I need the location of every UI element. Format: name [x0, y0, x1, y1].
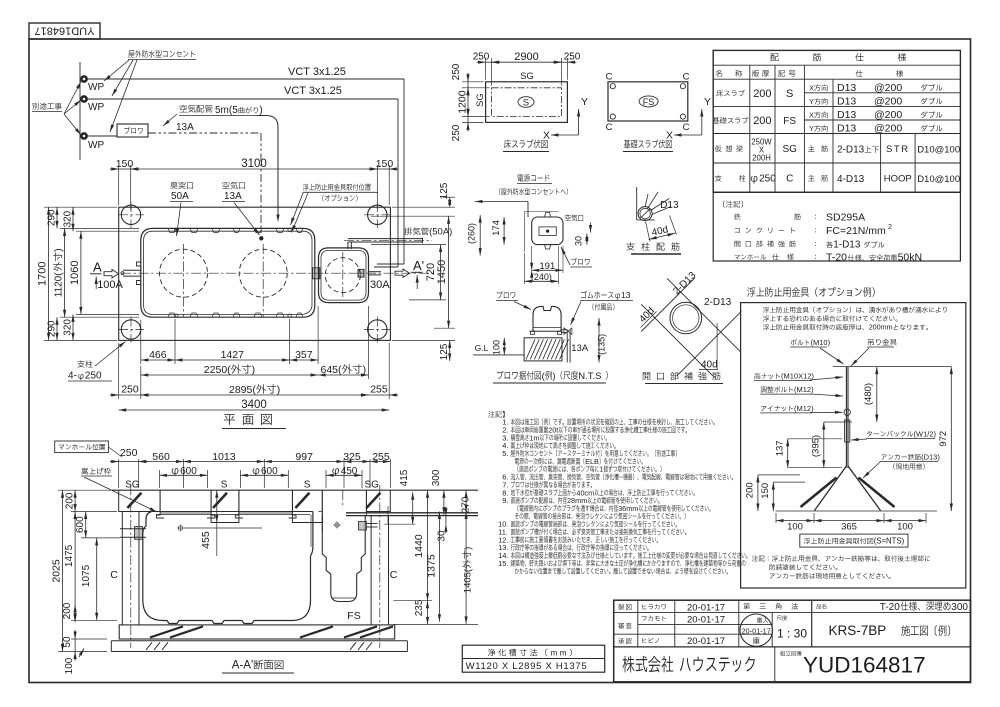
- uplift bracket figure label box: [800, 534, 908, 547]
- dim bottom 255: [388, 343, 390, 399]
- bracket: V anchor legs: [815, 466, 847, 511]
- svg-text:Y: Y: [809, 124, 814, 133]
- dim (240) below blower: [524, 280, 558, 282]
- row: virtual beam SG: [715, 145, 722, 152]
- svg-text:1075: 1075: [81, 564, 92, 587]
- svg-text:1450: 1450: [436, 260, 448, 284]
- label: hanging bracket: [868, 339, 874, 346]
- section: tank interior partition lines: [216, 515, 218, 523]
- svg-text:50: 50: [62, 636, 73, 648]
- dim 30 blower: [586, 234, 588, 245]
- svg-text:(M10X12): (M10X12): [781, 372, 814, 381]
- svg-text:600: 600: [261, 466, 278, 477]
- svg-text:D13: D13: [837, 123, 856, 135]
- section dim right 1440: [427, 490, 429, 601]
- svg-text:2250(: 2250(: [204, 364, 231, 376]
- svg-text:): ): [552, 371, 555, 382]
- svg-text:250: 250: [473, 52, 490, 63]
- title block grid lines: [614, 646, 971, 648]
- svg-text:A': A': [413, 258, 424, 273]
- svg-text:T-20: T-20: [880, 602, 900, 613]
- section dim 455: [216, 490, 218, 522]
- svg-text:C: C: [110, 569, 118, 581]
- column rebar detail corner lines: [636, 187, 638, 220]
- section dims D600 D600 D450: [159, 470, 161, 488]
- dim bottom 466: [140, 320, 142, 364]
- plan: outlet pipe 30A: [369, 271, 382, 273]
- section: base slab FS band: [119, 625, 395, 639]
- power cord line with arrow to left: [475, 201, 528, 203]
- svg-text:365: 365: [841, 522, 857, 533]
- svg-text:13A: 13A: [224, 191, 242, 202]
- plan: support column circle top-left: [121, 205, 140, 224]
- svg-text:(W1/2): (W1/2): [914, 429, 937, 438]
- svg-text:WP: WP: [88, 140, 104, 151]
- dim (260) left of blower: [479, 215, 481, 256]
- svg-text:C: C: [786, 174, 793, 185]
- section: inlet pipe left: [120, 528, 146, 530]
- svg-text:100: 100: [897, 522, 913, 533]
- svg-text:3400: 3400: [241, 399, 267, 411]
- svg-text:250: 250: [121, 384, 139, 396]
- uplift bracket notes: [752, 555, 758, 561]
- floor slab mark S: [518, 97, 534, 108]
- svg-text:200: 200: [753, 88, 771, 100]
- svg-text:2895(: 2895(: [229, 384, 256, 396]
- column rebar detail title: [626, 242, 634, 250]
- svg-text:13: 13: [621, 290, 631, 300]
- base slab plan rectangle: [608, 82, 688, 121]
- company name: [622, 656, 634, 673]
- svg-text:C: C: [390, 569, 398, 581]
- section: gravel base layer: [111, 640, 407, 642]
- svg-text:1m: 1m: [529, 433, 539, 442]
- svg-text:174: 174: [491, 220, 502, 236]
- svg-text:200: 200: [753, 115, 771, 127]
- svg-text:320: 320: [63, 319, 74, 336]
- label: bolt M10: [791, 339, 797, 345]
- svg-text:2025: 2025: [51, 559, 63, 583]
- svg-text:SG: SG: [475, 93, 486, 107]
- svg-text:150: 150: [376, 158, 394, 170]
- svg-text:9.: 9.: [502, 496, 508, 505]
- svg-text:X: X: [809, 84, 814, 93]
- svg-text:20t: 20t: [548, 426, 558, 435]
- svg-text:C: C: [606, 122, 613, 133]
- title row: checker: [618, 623, 624, 629]
- flow arrow at inlet (hollow): [104, 270, 119, 278]
- section: outlet invert extension: [384, 523, 415, 525]
- section dim right 235: [427, 601, 429, 625]
- dim (135) hose: [598, 318, 600, 363]
- svg-text:D10@100: D10@100: [917, 144, 960, 155]
- note: manhole spec: [735, 255, 740, 259]
- svg-text:250: 250: [451, 63, 462, 80]
- row: column C: [715, 175, 721, 181]
- wall line for outlets: [79, 62, 81, 160]
- section dim left 1075: [96, 538, 98, 620]
- svg-text:100A: 100A: [97, 279, 123, 291]
- plan: manhole circle 2 (dashed): [239, 249, 287, 297]
- svg-text:20-01-17: 20-01-17: [687, 614, 725, 625]
- svg-text:(M10): (M10): [811, 338, 831, 347]
- svg-text:972: 972: [938, 431, 949, 447]
- svg-text:W1120 X L2895 X H1375: W1120 X L2895 X H1375: [466, 661, 588, 672]
- dim (395): [823, 422, 825, 468]
- svg-text:SG: SG: [125, 480, 140, 491]
- dim bottom 1427: [289, 319, 291, 364]
- note: rebar grade: [734, 213, 740, 219]
- section dim left 200 top: [71, 511, 117, 513]
- opening reinforcement circles: [670, 302, 702, 334]
- uplift bracket section title: [747, 287, 755, 297]
- svg-text:SG: SG: [365, 480, 380, 491]
- svg-text:250: 250: [120, 447, 138, 459]
- svg-text:357: 357: [295, 349, 313, 361]
- svg-text:235: 235: [414, 599, 425, 616]
- table header: [770, 53, 778, 61]
- svg-text:150: 150: [116, 158, 134, 170]
- svg-text:300: 300: [951, 602, 968, 613]
- svg-text:250: 250: [451, 124, 462, 141]
- dim bottom 2250 outer: [141, 374, 318, 376]
- svg-text:D13: D13: [837, 109, 856, 121]
- svg-text:KRS-7BP: KRS-7BP: [829, 623, 887, 638]
- dim bottom 357: [317, 306, 319, 364]
- dim 174 left of blower: [503, 217, 505, 245]
- dim (480): [876, 367, 878, 422]
- plan: pump manhole circle (dashed): [325, 258, 360, 293]
- blower top view tabs: [545, 213, 551, 218]
- label: air port on blower: [565, 214, 571, 221]
- svg-text:455: 455: [200, 531, 212, 549]
- base slab corner circles C: [610, 84, 615, 89]
- WP outlet 3: [81, 133, 88, 140]
- svg-text:@200: @200: [874, 109, 902, 121]
- plan: inlet pipe 100A: [121, 272, 124, 275]
- section dim left 1475: [74, 512, 76, 621]
- label: power cord: [517, 175, 523, 182]
- svg-text:1427: 1427: [221, 349, 245, 361]
- svg-text:100: 100: [787, 522, 803, 533]
- svg-text:Y: Y: [704, 96, 711, 108]
- svg-text:1120(: 1120(: [54, 272, 65, 298]
- plan: support column circle bottom-left: [121, 320, 140, 339]
- dim 150 anchor: [772, 482, 774, 511]
- label: stink vent 50A: [170, 182, 177, 189]
- dim bottom 3400: [119, 409, 390, 411]
- svg-text:VCT 3x1.25: VCT 3x1.25: [284, 85, 342, 97]
- received stamp circle: [740, 614, 772, 646]
- section dim left 200 bottom: [71, 619, 117, 621]
- svg-text:@200: @200: [874, 96, 902, 108]
- dim 40d column (slanted): [646, 222, 651, 242]
- svg-text:125: 125: [439, 343, 450, 360]
- svg-text:250: 250: [85, 371, 102, 382]
- bracket: eye nut circle: [844, 409, 850, 415]
- dim bottom 645 outer: [368, 306, 370, 379]
- section: ground line: [112, 489, 478, 491]
- section dim left 100: [64, 657, 75, 674]
- section dim right 300: [443, 490, 445, 515]
- svg-text:125: 125: [439, 182, 450, 199]
- plan: tank body inner shell: [144, 231, 312, 314]
- svg-text:1405(: 1405(: [463, 568, 474, 593]
- svg-text:250: 250: [759, 174, 776, 185]
- svg-text:): ): [463, 547, 474, 550]
- svg-text:28mm: 28mm: [567, 496, 587, 505]
- svg-text:36mm: 36mm: [618, 504, 638, 513]
- svg-text:X: X: [809, 111, 814, 120]
- dim 972: [950, 367, 952, 511]
- svg-text:137: 137: [774, 440, 785, 456]
- section dim left 50: [71, 638, 107, 640]
- svg-text:15.: 15.: [498, 559, 508, 568]
- svg-text:mm: mm: [551, 649, 569, 658]
- blower detail boundary lines: [523, 212, 525, 252]
- svg-text:200: 200: [65, 492, 76, 509]
- svg-text:X: X: [543, 130, 550, 142]
- section: manhole riser 2: [235, 490, 243, 518]
- svg-text:1013: 1013: [212, 451, 236, 463]
- svg-text:1440: 1440: [413, 534, 425, 558]
- svg-text:1375: 1375: [425, 554, 437, 578]
- bracket: turnbuckle body: [845, 420, 850, 442]
- svg-text:G.L: G.L: [475, 343, 489, 353]
- svg-text:WP: WP: [88, 82, 104, 93]
- svg-text:STR: STR: [886, 144, 910, 155]
- label 2-D13 slanted: [671, 270, 698, 297]
- svg-text:VCT 3x1.25: VCT 3x1.25: [288, 66, 346, 78]
- svg-text:(M12): (M12): [794, 385, 814, 394]
- section: tank body outline: [143, 512, 313, 624]
- svg-text:Y: Y: [581, 96, 588, 108]
- svg-text:FC=21N/mm: FC=21N/mm: [826, 225, 886, 237]
- section dim right 1405 outer: [465, 512, 467, 624]
- svg-text:T-20: T-20: [826, 252, 847, 264]
- tank dimensions table: [462, 645, 604, 672]
- dim top 150: [118, 165, 120, 205]
- svg-text:1475: 1475: [64, 544, 75, 567]
- svg-text:200: 200: [745, 482, 756, 498]
- section dim left 600: [81, 537, 120, 539]
- dim right 125 bottom: [392, 339, 455, 341]
- svg-text:~: ~: [619, 473, 623, 482]
- svg-text:(395): (395): [810, 435, 821, 457]
- svg-text:645(: 645(: [321, 364, 343, 376]
- svg-text:191: 191: [539, 261, 555, 272]
- svg-text:300: 300: [431, 469, 442, 486]
- floor slab dims 250/2900/250 top: [485, 58, 487, 80]
- section dim right 30: [445, 516, 447, 525]
- svg-text:30: 30: [574, 236, 584, 246]
- svg-text:N.T.S: N.T.S: [578, 371, 601, 382]
- row: base slab FS: [713, 117, 720, 123]
- dim 200 anchor: [757, 475, 759, 511]
- svg-text:13A: 13A: [176, 122, 194, 133]
- section: gravel hatch marks: [146, 642, 152, 650]
- blower side view body: [533, 306, 561, 331]
- bracket: tank top line: [833, 366, 951, 368]
- label: air piping 5m: [179, 105, 187, 112]
- svg-text:D13: D13: [837, 96, 856, 108]
- svg-text:4-: 4-: [68, 371, 77, 382]
- base slab XY axis: [701, 109, 703, 135]
- plan: outlet fitting: [358, 269, 364, 277]
- svg-text:255: 255: [372, 451, 390, 463]
- opening reinforcement bars X pattern: [641, 304, 713, 376]
- svg-text:(480): (480): [863, 383, 874, 405]
- dim 191 below blower: [531, 269, 533, 271]
- svg-text:(135): (135): [597, 334, 607, 355]
- svg-text:SG: SG: [520, 71, 534, 82]
- label: blower (side view): [497, 291, 503, 298]
- WP outlet 2: [81, 96, 88, 103]
- svg-text:2-D13: 2-D13: [704, 297, 732, 308]
- svg-text:(260): (260): [467, 223, 477, 244]
- label 40d slanted: [637, 306, 657, 326]
- section arrow A-prime (right): [395, 269, 410, 277]
- label: manhole position box: [55, 441, 109, 453]
- note: opening reinforcement: [734, 241, 740, 247]
- dim left 320 top: [72, 207, 74, 231]
- air pipe curve down to tank: [258, 116, 278, 220]
- section: outlet pipe right: [359, 522, 367, 531]
- svg-text:466: 466: [149, 349, 167, 361]
- label: air inlet 13A: [222, 182, 229, 189]
- plan: vent pipe 50A to right: [404, 228, 412, 236]
- svg-text:): ): [54, 248, 65, 251]
- svg-text:ELB: ELB: [585, 457, 599, 466]
- plan: floor slab outline: [119, 207, 391, 340]
- section: pump centerline: [342, 490, 344, 506]
- svg-text:997: 997: [295, 451, 313, 463]
- svg-text:290: 290: [47, 320, 58, 337]
- svg-text:40d: 40d: [701, 360, 718, 371]
- svg-text:FS: FS: [643, 97, 655, 107]
- svg-text:A-A': A-A': [232, 660, 253, 672]
- svg-text:YUD164817: YUD164817: [803, 653, 926, 678]
- floor slab label SG left (rotated): [475, 93, 486, 107]
- label: rubber hose phi13: [581, 291, 587, 299]
- construction notes list: [488, 411, 494, 417]
- floor slab XY axis: [578, 109, 580, 135]
- svg-text:20-01-17: 20-01-17: [742, 627, 771, 636]
- svg-text:): ): [363, 364, 367, 376]
- label: blower (top view): [571, 258, 577, 265]
- title row: drafter: [618, 604, 624, 610]
- svg-text:150: 150: [760, 483, 771, 499]
- section dim right 1375: [438, 512, 440, 622]
- svg-text:C: C: [683, 122, 690, 133]
- svg-text:290: 290: [47, 209, 58, 226]
- bracket: anchor bars (thick): [801, 478, 837, 508]
- WP outlet 1: [81, 76, 88, 83]
- plan: horizontal centerline through tanks: [121, 272, 434, 274]
- note: concrete strength: [735, 228, 740, 233]
- floor slab dims 250/1200/250 left: [462, 81, 484, 83]
- plan title: [224, 414, 235, 425]
- section: outlet pipe running right (thick): [346, 512, 478, 514]
- plan: vent hole mark: [175, 228, 178, 231]
- svg-text:D13: D13: [660, 200, 679, 211]
- svg-text:S: S: [786, 88, 793, 100]
- floor slab plan title: [504, 140, 511, 149]
- svg-text:450: 450: [341, 466, 358, 477]
- svg-text:S: S: [221, 480, 228, 491]
- floor slab inner dash-dot rect: [492, 88, 562, 117]
- svg-text:100: 100: [64, 657, 75, 674]
- dim left 320 bottom: [72, 314, 74, 340]
- plan: top edge mould notches: [168, 229, 176, 233]
- section right extension lines: [393, 600, 432, 602]
- svg-text:1: 1: [599, 465, 603, 474]
- blower installation title: [497, 371, 504, 380]
- svg-text:SD295A: SD295A: [826, 211, 865, 223]
- svg-text:2: 2: [888, 224, 892, 231]
- label: eye nut M12: [761, 406, 766, 411]
- scale cell: [777, 616, 782, 621]
- svg-text:C: C: [683, 72, 690, 83]
- svg-text:4-D13: 4-D13: [837, 174, 865, 185]
- svg-text:1-D13: 1-D13: [833, 240, 861, 251]
- svg-text:@200: @200: [874, 82, 902, 94]
- svg-text:2900: 2900: [514, 51, 538, 63]
- svg-text:X: X: [666, 130, 673, 142]
- label: adjust bolt M12: [761, 387, 767, 393]
- svg-text:270: 270: [461, 496, 472, 513]
- base slab mark FS: [639, 96, 658, 107]
- svg-text:20-01-17: 20-01-17: [687, 636, 725, 647]
- svg-text:(M12): (M12): [794, 404, 814, 413]
- svg-text:S: S: [523, 98, 529, 109]
- svg-text:5m(5: 5m(5: [215, 105, 238, 116]
- label: turnbuckle W1/2: [867, 431, 872, 437]
- plan: tank body outer shell: [141, 228, 315, 317]
- label: riser frame: [82, 468, 89, 475]
- svg-text:D10@100: D10@100: [917, 174, 960, 185]
- svg-text:Y: Y: [809, 97, 814, 106]
- svg-text:600: 600: [75, 516, 86, 533]
- label: support columns 4-D250: [77, 360, 84, 367]
- svg-text:1060: 1060: [69, 261, 81, 285]
- svg-text:FS: FS: [783, 116, 796, 127]
- dim right 1450: [371, 215, 456, 217]
- uplift bracket description text: [763, 307, 769, 313]
- svg-text:): ): [277, 384, 281, 396]
- dim left 1060: [76, 230, 139, 232]
- title block outer box: [614, 600, 971, 682]
- VCT cable drops to pump pit: [403, 79, 405, 264]
- svg-text:WP: WP: [88, 102, 104, 113]
- dim bottom 250: [118, 343, 120, 399]
- rebar spec table outer box: [713, 50, 960, 192]
- rubber hose and valve: [561, 329, 567, 331]
- plan: inlet socket on tank wall: [137, 262, 141, 285]
- svg-text:5.: 5.: [502, 449, 508, 458]
- label: separate work: [32, 103, 38, 110]
- bracket: ground line at anchor: [776, 510, 937, 512]
- svg-text:): ): [252, 364, 256, 376]
- section: pump chamber riser: [321, 490, 323, 532]
- dim top 3100: [131, 168, 378, 170]
- bracket: rod: [845, 367, 847, 468]
- dims 100/365/100 anchor bottom: [775, 513, 777, 523]
- svg-text:30: 30: [437, 530, 448, 542]
- section dim right 415: [412, 492, 414, 524]
- rebar spec table grid: [713, 64, 960, 66]
- opening reinforcement title: [643, 372, 650, 380]
